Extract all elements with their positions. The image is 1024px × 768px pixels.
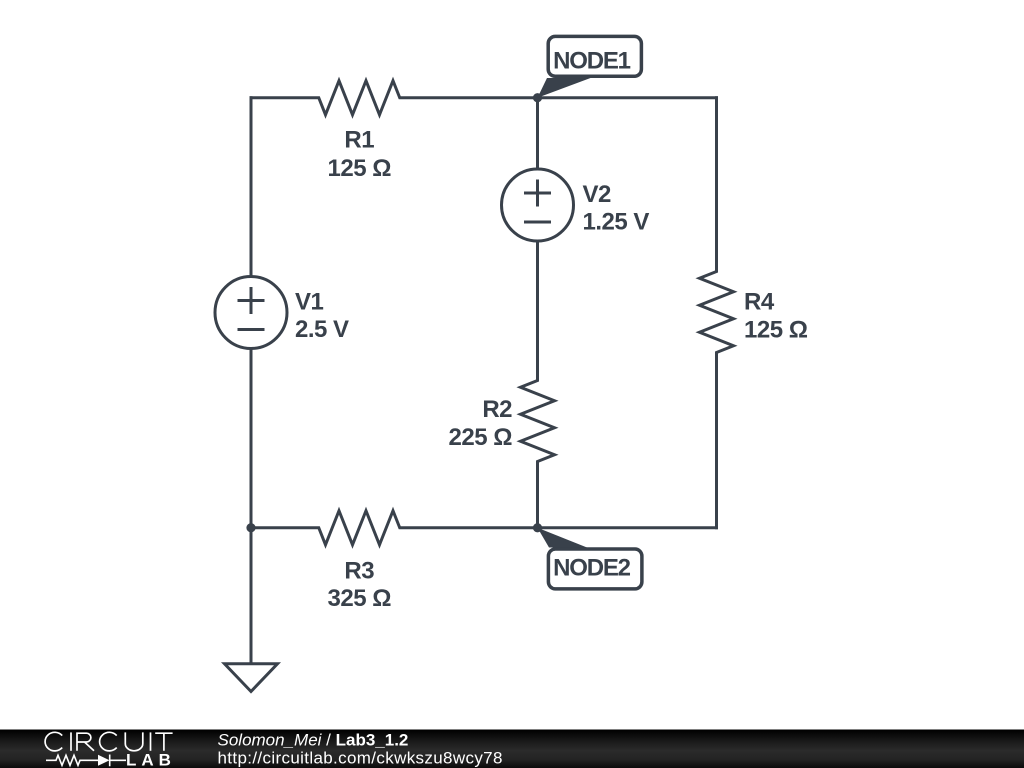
- svg-text:R2: R2: [482, 396, 512, 423]
- svg-text:125 Ω: 125 Ω: [744, 317, 808, 344]
- svg-text:V2: V2: [583, 181, 612, 208]
- svg-text:V1: V1: [295, 289, 324, 316]
- svg-text:R3: R3: [344, 558, 374, 585]
- svg-text:125 Ω: 125 Ω: [328, 155, 392, 182]
- svg-text:NODE1: NODE1: [553, 48, 631, 75]
- svg-text:2.5 V: 2.5 V: [295, 316, 349, 343]
- svg-text:225 Ω: 225 Ω: [449, 424, 513, 451]
- svg-text:325 Ω: 325 Ω: [328, 585, 392, 612]
- svg-text:1.25 V: 1.25 V: [583, 209, 650, 236]
- svg-text:R4: R4: [744, 289, 775, 316]
- svg-text:NODE2: NODE2: [553, 555, 631, 582]
- svg-text:LAB: LAB: [126, 751, 176, 768]
- svg-text:Solomon_Mei / Lab3_1.2: Solomon_Mei / Lab3_1.2: [218, 731, 409, 750]
- svg-text:R1: R1: [344, 127, 374, 154]
- svg-text:http://circuitlab.com/ckwkszu8: http://circuitlab.com/ckwkszu8wcy78: [218, 749, 503, 768]
